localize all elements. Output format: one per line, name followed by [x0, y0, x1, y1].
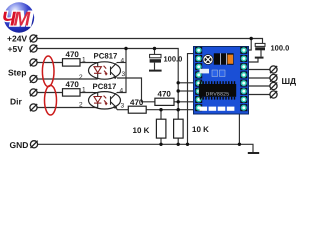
svg-text:Dir: Dir: [10, 96, 23, 106]
svg-text:GND: GND: [10, 140, 29, 150]
svg-text:2: 2: [79, 102, 83, 109]
svg-text:1: 1: [82, 87, 86, 94]
svg-text:PC817: PC817: [93, 82, 117, 91]
svg-text:PC817: PC817: [94, 52, 118, 61]
svg-text:3: 3: [122, 71, 126, 78]
svg-text:4: 4: [120, 88, 124, 95]
svg-text:470: 470: [66, 50, 80, 59]
svg-text:470: 470: [66, 80, 80, 89]
svg-text:1: 1: [82, 57, 86, 64]
svg-text:10 K: 10 K: [133, 126, 150, 135]
svg-text:Step: Step: [8, 67, 26, 77]
svg-text:100.0: 100.0: [164, 55, 183, 64]
svg-text:DRV8825: DRV8825: [206, 91, 230, 97]
svg-text:470: 470: [158, 90, 172, 99]
svg-text:4: 4: [121, 58, 125, 65]
svg-text:470: 470: [130, 98, 144, 107]
svg-text:М: М: [14, 9, 32, 31]
svg-text:3: 3: [121, 103, 125, 110]
svg-text:ШД: ШД: [282, 76, 297, 86]
svg-text:+5V: +5V: [8, 44, 24, 54]
svg-text:100.0: 100.0: [271, 44, 290, 53]
svg-text:+24V: +24V: [7, 34, 27, 44]
svg-text:10 K: 10 K: [192, 125, 209, 134]
svg-text:2: 2: [79, 74, 83, 81]
